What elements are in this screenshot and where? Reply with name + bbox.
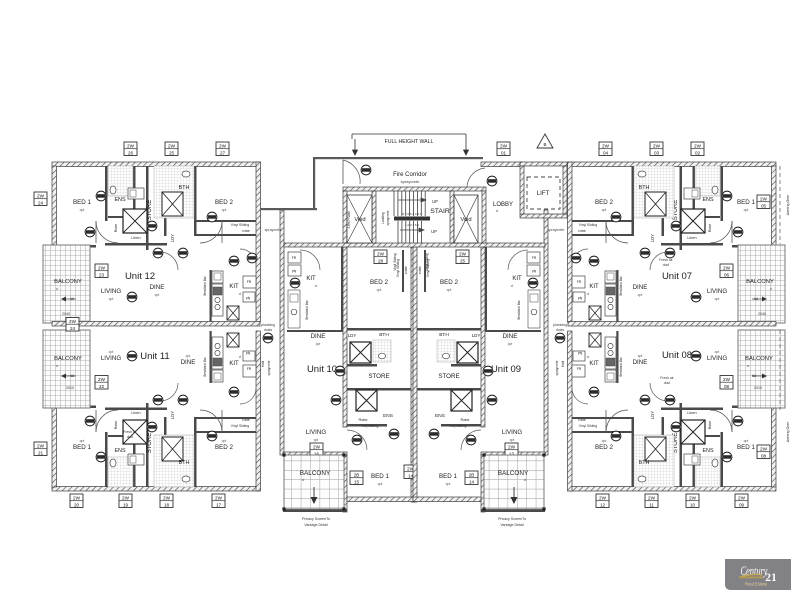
unit 12 window tag: [216, 142, 229, 156]
svg-text:cpt: cpt: [510, 438, 515, 442]
unit 10 fridge: [288, 252, 301, 263]
svg-text:2W: 2W: [37, 194, 45, 199]
unit 07 bench: [605, 284, 616, 316]
svg-text:03: 03: [654, 150, 660, 155]
unit 08 ens vanity: [684, 454, 700, 465]
unit 08 sink: [607, 373, 614, 380]
unit 12 door tag 3D50: [178, 248, 188, 258]
window tag 2W/28: [374, 250, 387, 264]
unit 07 robe wall: [572, 220, 632, 222]
svg-text:18: 18: [164, 502, 170, 507]
unit 08 east wall: [568, 331, 573, 491]
unit 10 fall arrow: [311, 487, 317, 503]
unit 12 hotplate: [215, 297, 220, 302]
unit 11 door tag 3D45: [147, 422, 157, 432]
unit 12 west wall: [52, 166, 57, 246]
unit 09 door tag: [528, 278, 538, 288]
window tag 2W/25: [456, 250, 469, 264]
svg-text:cpt: cpt: [638, 354, 643, 358]
unit 07 bth wall: [662, 166, 665, 236]
svg-text:cpt: cpt: [155, 293, 160, 297]
svg-text:Breakfast Bar: Breakfast Bar: [203, 275, 207, 295]
unit 12 window tag: [124, 142, 137, 156]
unit 09 ens south wall: [441, 424, 481, 427]
unit 08 door tag 3D53: [611, 431, 621, 441]
svg-text:cl: cl: [770, 287, 773, 291]
stair treads: [394, 191, 425, 243]
svg-text:cpt: cpt: [109, 297, 114, 301]
unit 12 sink bench: [212, 271, 223, 283]
bottom window tag 2W/19: [119, 494, 132, 508]
svg-text:Unit 07: Unit 07: [662, 271, 692, 282]
svg-text:08: 08: [724, 384, 730, 389]
unit 07 kit store unit: [589, 306, 601, 320]
unit 10 window tag: [350, 471, 363, 485]
unit 08 bed1 wall: [721, 432, 724, 487]
unit 10 laundry unit: [350, 342, 371, 363]
unit 10 store south wall: [347, 388, 411, 391]
wire line: [731, 410, 733, 432]
svg-text:2W: 2W: [760, 447, 768, 452]
svg-text:cl: cl: [239, 355, 242, 359]
unit 10 balcony posts: [282, 453, 345, 510]
unit 12 kit door tag: [229, 256, 239, 266]
svg-text:25: 25: [460, 258, 466, 263]
unit 12 window tag: [165, 142, 178, 156]
unit 08 balcony wall: [738, 330, 742, 408]
unit 11 bed1 door swing: [96, 410, 118, 432]
unit 07 bed2 south wall: [572, 234, 632, 236]
svg-text:cpt: cpt: [602, 208, 607, 212]
unit 07 sink bench: [605, 271, 616, 283]
svg-text:STORE: STORE: [147, 200, 153, 221]
unit 11 door tag 3D47: [96, 452, 106, 462]
svg-text:Void: Void: [460, 217, 471, 223]
unit 12 bed2 wall: [194, 166, 197, 236]
svg-text:2W: 2W: [599, 496, 607, 501]
svg-text:2W: 2W: [738, 496, 746, 501]
svg-text:Fresh air: Fresh air: [123, 430, 137, 434]
unit 12 ens wall: [133, 166, 136, 218]
svg-text:BALCONY: BALCONY: [745, 356, 773, 362]
svg-text:BED 1: BED 1: [439, 473, 457, 480]
unit 12 balcony wall: [87, 245, 91, 323]
unit 09 pantry: [527, 265, 540, 276]
svg-text:BED 2: BED 2: [370, 279, 388, 286]
unit 08 ens wall: [693, 435, 696, 487]
unit 11 pantry: [243, 351, 255, 361]
svg-text:2W: 2W: [377, 252, 385, 257]
svg-text:cpt: cpt: [80, 208, 85, 212]
unit 07 kitchen wall: [616, 270, 618, 322]
svg-text:LDY: LDY: [170, 411, 175, 419]
unit 07 oven: [606, 287, 615, 295]
unit 08 hotplate 2: [608, 343, 613, 348]
svg-text:cpt: cpt: [446, 482, 451, 486]
unit 08 hotplate: [608, 350, 613, 355]
unit 07 ens vanity: [684, 188, 700, 199]
svg-text:Robe: Robe: [460, 418, 469, 422]
svg-text:cpt: cpt: [602, 439, 607, 443]
svg-text:BALCONY: BALCONY: [300, 470, 331, 477]
svg-text:LIVING: LIVING: [101, 288, 121, 295]
svg-text:15: 15: [354, 479, 360, 484]
svg-text:cpt: cpt: [222, 439, 227, 443]
svg-text:LIVING: LIVING: [306, 429, 326, 436]
unit 12 bed2 door swing: [200, 221, 222, 243]
svg-text:2W: 2W: [168, 144, 176, 149]
svg-text:BALCONY: BALCONY: [746, 279, 774, 285]
unit 09 balcony north wall: [481, 452, 545, 455]
unit 12 entry door swing: [160, 252, 178, 270]
svg-text:cl: cl: [524, 478, 527, 482]
unit 11 robe wall: [196, 431, 256, 433]
unit 09 window tag: [465, 471, 478, 485]
unit 08 door tag 3D47: [722, 452, 732, 462]
unit 11 living west wall: [52, 406, 96, 409]
unit 08 ens basin: [692, 456, 698, 463]
unit 11 door tag 3D48: [127, 351, 137, 361]
svg-text:FR: FR: [247, 280, 252, 284]
svg-text:KIT: KIT: [589, 361, 599, 367]
unit 08 bed1 door swing: [710, 410, 732, 432]
unit 09 party wall: [413, 247, 417, 502]
svg-text:robe: robe: [578, 418, 586, 422]
svg-text:20: 20: [74, 502, 80, 507]
svg-text:plumbing: plumbing: [261, 323, 275, 327]
svg-text:Unit 11: Unit 11: [140, 351, 169, 362]
unit 09 balcony posts: [482, 453, 545, 510]
unit 10 door tag: [290, 278, 300, 288]
unit 08 entry door swing: [650, 383, 668, 401]
unit 07 bath floor: [634, 166, 674, 218]
unit 09 kit east wall: [485, 247, 487, 330]
unit 07 linen robe: [681, 209, 705, 233]
unit 11 kit entry swing: [240, 388, 256, 404]
unit 11 linen robe: [123, 420, 147, 444]
svg-text:STORE: STORE: [147, 433, 153, 454]
unit 12 living west wall: [52, 245, 96, 248]
unit 08 ens floor: [695, 457, 720, 487]
unit 10 bth floor: [373, 340, 391, 362]
unit 08 ens south wall: [694, 435, 720, 437]
unit 12 hall wall: [105, 243, 167, 246]
unit 12 oven: [213, 287, 222, 295]
svg-text:spraycrete: spraycrete: [265, 228, 282, 232]
svg-text:2W: 2W: [459, 252, 467, 257]
unit 10 balcony: [284, 455, 344, 509]
svg-text:cl: cl: [587, 292, 590, 296]
svg-text:ply: ply: [246, 351, 251, 355]
svg-text:DINE: DINE: [633, 359, 648, 366]
svg-text:2W: 2W: [98, 377, 106, 382]
unit 07 fall arrow head: [762, 297, 767, 302]
full height wall step horizontal: [260, 208, 317, 210]
awning dashed line lower: [779, 330, 781, 410]
svg-text:spraycrete: spraycrete: [555, 360, 559, 375]
svg-text:2010: 2010: [66, 386, 74, 390]
svg-text:FULL HEIGHT WALL: FULL HEIGHT WALL: [385, 139, 434, 145]
svg-text:cpt: cpt: [80, 439, 85, 443]
unit 08 bed2 south wall: [572, 417, 632, 419]
unit 11 ens basin: [130, 456, 136, 463]
svg-text:Linen: Linen: [131, 236, 140, 240]
svg-text:spraycrete: spraycrete: [401, 179, 420, 184]
unit 10 entry swing: [300, 250, 320, 270]
unit 10 west wall: [280, 210, 284, 455]
svg-text:2040: 2040: [62, 312, 70, 316]
unit 12 bth wall: [164, 166, 167, 236]
unit 07 door tag 3D48: [691, 292, 701, 302]
bottom window tag 2W/17: [212, 494, 225, 508]
unit 08 kit entry swing: [572, 388, 588, 404]
svg-text:27: 27: [220, 150, 226, 155]
wire line: [95, 221, 97, 243]
unit 07 living west wall: [732, 245, 776, 248]
svg-text:spraycrete: spraycrete: [267, 360, 271, 375]
unit 11 bath wc: [182, 476, 190, 482]
unit 07 window tag: [599, 142, 612, 156]
unit 10 door tag: [352, 435, 362, 445]
svg-text:BTH: BTH: [639, 460, 650, 466]
svg-text:LIVING: LIVING: [707, 288, 727, 295]
svg-text:robe: robe: [242, 229, 250, 233]
svg-text:STORE: STORE: [368, 373, 389, 380]
svg-text:2B: 2B: [469, 473, 475, 478]
svg-text:25: 25: [169, 150, 175, 155]
left wing divider wall: [52, 322, 260, 327]
unit 07 window tag: [691, 142, 704, 156]
unit 07 pantry: [573, 292, 585, 302]
unit 07 door tag 3D50: [640, 248, 650, 258]
unit 12 fall arrow: [64, 298, 76, 300]
svg-text:DINE: DINE: [311, 333, 326, 340]
svg-text:24: 24: [38, 200, 44, 205]
fire corridor north wall: [313, 157, 483, 159]
unit 11 fridge: [243, 365, 256, 377]
unit 12 door tag 3D49: [153, 248, 163, 258]
unit 10 balcony south wall: [283, 509, 347, 512]
unit 12 bed1 wall: [105, 166, 108, 221]
unit 08 bth wall: [662, 417, 665, 487]
unit 09 door tag: [483, 366, 493, 376]
svg-text:24: 24: [70, 326, 76, 331]
svg-text:cl: cl: [496, 209, 499, 213]
unit 11 door tag 3D46: [85, 416, 95, 426]
svg-text:FR: FR: [247, 367, 252, 371]
svg-text:LDY: LDY: [348, 333, 357, 338]
east corridor door swing: [467, 168, 485, 187]
svg-text:BTH: BTH: [439, 332, 449, 338]
unit 12 kitchen wall: [210, 270, 212, 322]
svg-text:robe: robe: [404, 266, 408, 274]
west wall window tag 2W/24: [34, 192, 47, 206]
unit 07 ens toilet: [712, 186, 718, 194]
right wing divider wall: [568, 322, 776, 327]
unit 11 store wall: [146, 403, 149, 487]
unit 11 west wall: [52, 407, 57, 487]
unit 12 bath floor: [154, 166, 194, 218]
unit 12 linen robe: [123, 209, 147, 233]
right void west wall: [450, 191, 454, 243]
unit 11 ens wall: [133, 435, 136, 487]
svg-text:cpt: cpt: [314, 438, 319, 442]
svg-text:robe: robe: [578, 229, 586, 233]
svg-text:2W: 2W: [723, 266, 731, 271]
svg-text:ENS: ENS: [114, 448, 125, 454]
svg-text:Robe: Robe: [358, 418, 367, 422]
unit 12 door tag 3D45: [147, 221, 157, 231]
svg-text:cl: cl: [56, 364, 59, 368]
unit 07 east wall: [568, 162, 573, 322]
svg-text:cpt: cpt: [638, 293, 643, 297]
svg-text:KIT: KIT: [229, 361, 239, 367]
unit 10 ens south wall: [347, 424, 387, 427]
svg-text:duct: duct: [127, 435, 133, 439]
unit 08 store wall: [680, 403, 683, 487]
unit 08 fall arrow: [752, 375, 764, 377]
unit 11 door tag 3D49: [153, 395, 163, 405]
full height wall callout line: [352, 133, 466, 135]
unit 10 pantry: [288, 265, 301, 276]
unit 08 balcony: [738, 330, 785, 408]
right void room: [454, 195, 478, 243]
svg-text:04: 04: [603, 150, 609, 155]
unit 11 bed1 wall: [105, 432, 108, 487]
unit 10 party wall: [411, 247, 415, 502]
unit 12 ens toilet: [110, 186, 116, 194]
svg-text:Vinyl Sliding: Vinyl Sliding: [425, 253, 429, 271]
unit 07 bed2 wall: [632, 166, 635, 236]
unit 12 fall arrow head: [61, 297, 66, 302]
unit 11 oven: [213, 358, 222, 366]
unit 08 bench: [605, 337, 616, 369]
svg-text:2W: 2W: [37, 444, 45, 449]
unit 07 window tag interior: [720, 264, 733, 278]
svg-text:LDY: LDY: [170, 234, 175, 242]
svg-text:10: 10: [690, 502, 696, 507]
svg-text:8 7 6 5 4 3 2 1: 8 7 6 5 4 3 2 1: [402, 212, 422, 216]
svg-text:Vinyl Sliding: Vinyl Sliding: [231, 424, 250, 428]
svg-text:cpt: cpt: [508, 342, 513, 346]
door tag 3D08: [487, 176, 497, 186]
unit 08 shower: [645, 437, 666, 461]
svg-text:Linen: Linen: [131, 411, 140, 415]
unit 10 window tag: [310, 443, 323, 457]
unit 11 fall arrow: [64, 375, 76, 377]
lift west wall: [520, 166, 524, 214]
unit 07 door tag 3D49: [665, 248, 675, 258]
svg-text:Fresh air: Fresh air: [659, 258, 673, 262]
unit 08 fall arrow head: [762, 374, 767, 379]
svg-text:Vantage Detail: Vantage Detail: [500, 523, 524, 527]
unit 08 linen robe: [681, 420, 705, 444]
unit 08 door tag 3D45: [671, 422, 681, 432]
svg-text:2W: 2W: [215, 496, 223, 501]
unit 07 west wall: [772, 166, 777, 246]
unit 07 door tag 3D47: [722, 191, 732, 201]
svg-text:Breakfast Bar: Breakfast Bar: [619, 356, 623, 376]
svg-text:FR: FR: [532, 256, 537, 260]
svg-text:FR: FR: [292, 256, 297, 260]
unit 12 sink: [214, 273, 221, 280]
wire line: [731, 221, 733, 243]
unit 09 west wall: [544, 210, 548, 455]
svg-text:Vinyl sliding: Vinyl sliding: [362, 424, 379, 428]
svg-text:Vinyl Sliding: Vinyl Sliding: [579, 223, 598, 227]
unit 07 ens floor: [695, 166, 720, 196]
unit 11 hall wall: [105, 408, 167, 411]
unit 12 door tag 3D46: [85, 227, 95, 237]
west wall window tag 2W/21: [34, 442, 47, 456]
svg-text:2W: 2W: [313, 445, 321, 450]
svg-text:2W: 2W: [653, 144, 661, 149]
svg-text:robe: robe: [418, 266, 422, 274]
unit 09 fridge: [527, 252, 540, 263]
svg-text:01: 01: [501, 150, 507, 155]
unit 12 robe wall: [196, 220, 256, 222]
svg-text:23: 23: [99, 272, 105, 277]
unit 08 kit door tag: [589, 387, 599, 397]
svg-text:12: 12: [600, 502, 606, 507]
unit 09 bth floor: [437, 340, 455, 362]
svg-text:LIFT: LIFT: [537, 190, 550, 197]
unit 07 balcony wall: [738, 245, 742, 323]
svg-text:ply: ply: [578, 351, 583, 355]
unit 08 door tag 3D46: [733, 416, 743, 426]
unit 10 ens robe: [356, 390, 377, 411]
unit 07 ens basin: [692, 190, 698, 197]
unit 12 bench: [212, 284, 223, 316]
Century 21 logo box: [725, 559, 791, 590]
svg-text:Privacy ScreenTo: Privacy ScreenTo: [498, 517, 526, 521]
svg-text:BED 2: BED 2: [215, 444, 233, 451]
svg-text:ply: ply: [578, 296, 583, 300]
unit 12 ens basin: [130, 190, 136, 197]
unit 10 balcony north wall: [283, 452, 347, 455]
svg-text:ENS: ENS: [435, 413, 445, 419]
svg-text:BTH: BTH: [639, 185, 650, 191]
unit 09 ens robe: [451, 390, 472, 411]
unit 12 east wall: [256, 162, 261, 322]
unit 07 bath wc: [638, 171, 646, 177]
svg-text:BTH: BTH: [179, 185, 190, 191]
svg-text:duct: duct: [664, 381, 670, 385]
svg-text:Breakfast Bar: Breakfast Bar: [619, 275, 623, 295]
unit 09 sink: [530, 294, 538, 302]
stair core north wall: [343, 187, 486, 191]
lobby window tag: [497, 142, 510, 156]
svg-text:BED 1: BED 1: [73, 444, 91, 451]
left void room: [347, 195, 372, 243]
unit 11 kit door tag: [229, 387, 239, 397]
unit 07 hotplate: [608, 297, 613, 302]
unit 11 door tag 3D53: [207, 431, 217, 441]
unit 07 bed2 door swing: [606, 221, 628, 243]
svg-text:BED 1: BED 1: [73, 199, 91, 206]
unit 07 balcony: [738, 245, 785, 323]
hall door tag E: [571, 253, 581, 263]
unit 11 balcony wall: [87, 330, 91, 408]
unit 07 ens wall: [693, 166, 696, 218]
svg-text:ENS: ENS: [114, 197, 125, 203]
east wall window tag 2W/08: [757, 445, 770, 459]
svg-text:LIVING: LIVING: [101, 355, 121, 362]
wire line: [342, 160, 344, 184]
svg-text:cpt: cpt: [186, 354, 191, 358]
svg-text:cpt: cpt: [715, 297, 720, 301]
svg-text:19: 19: [123, 502, 129, 507]
